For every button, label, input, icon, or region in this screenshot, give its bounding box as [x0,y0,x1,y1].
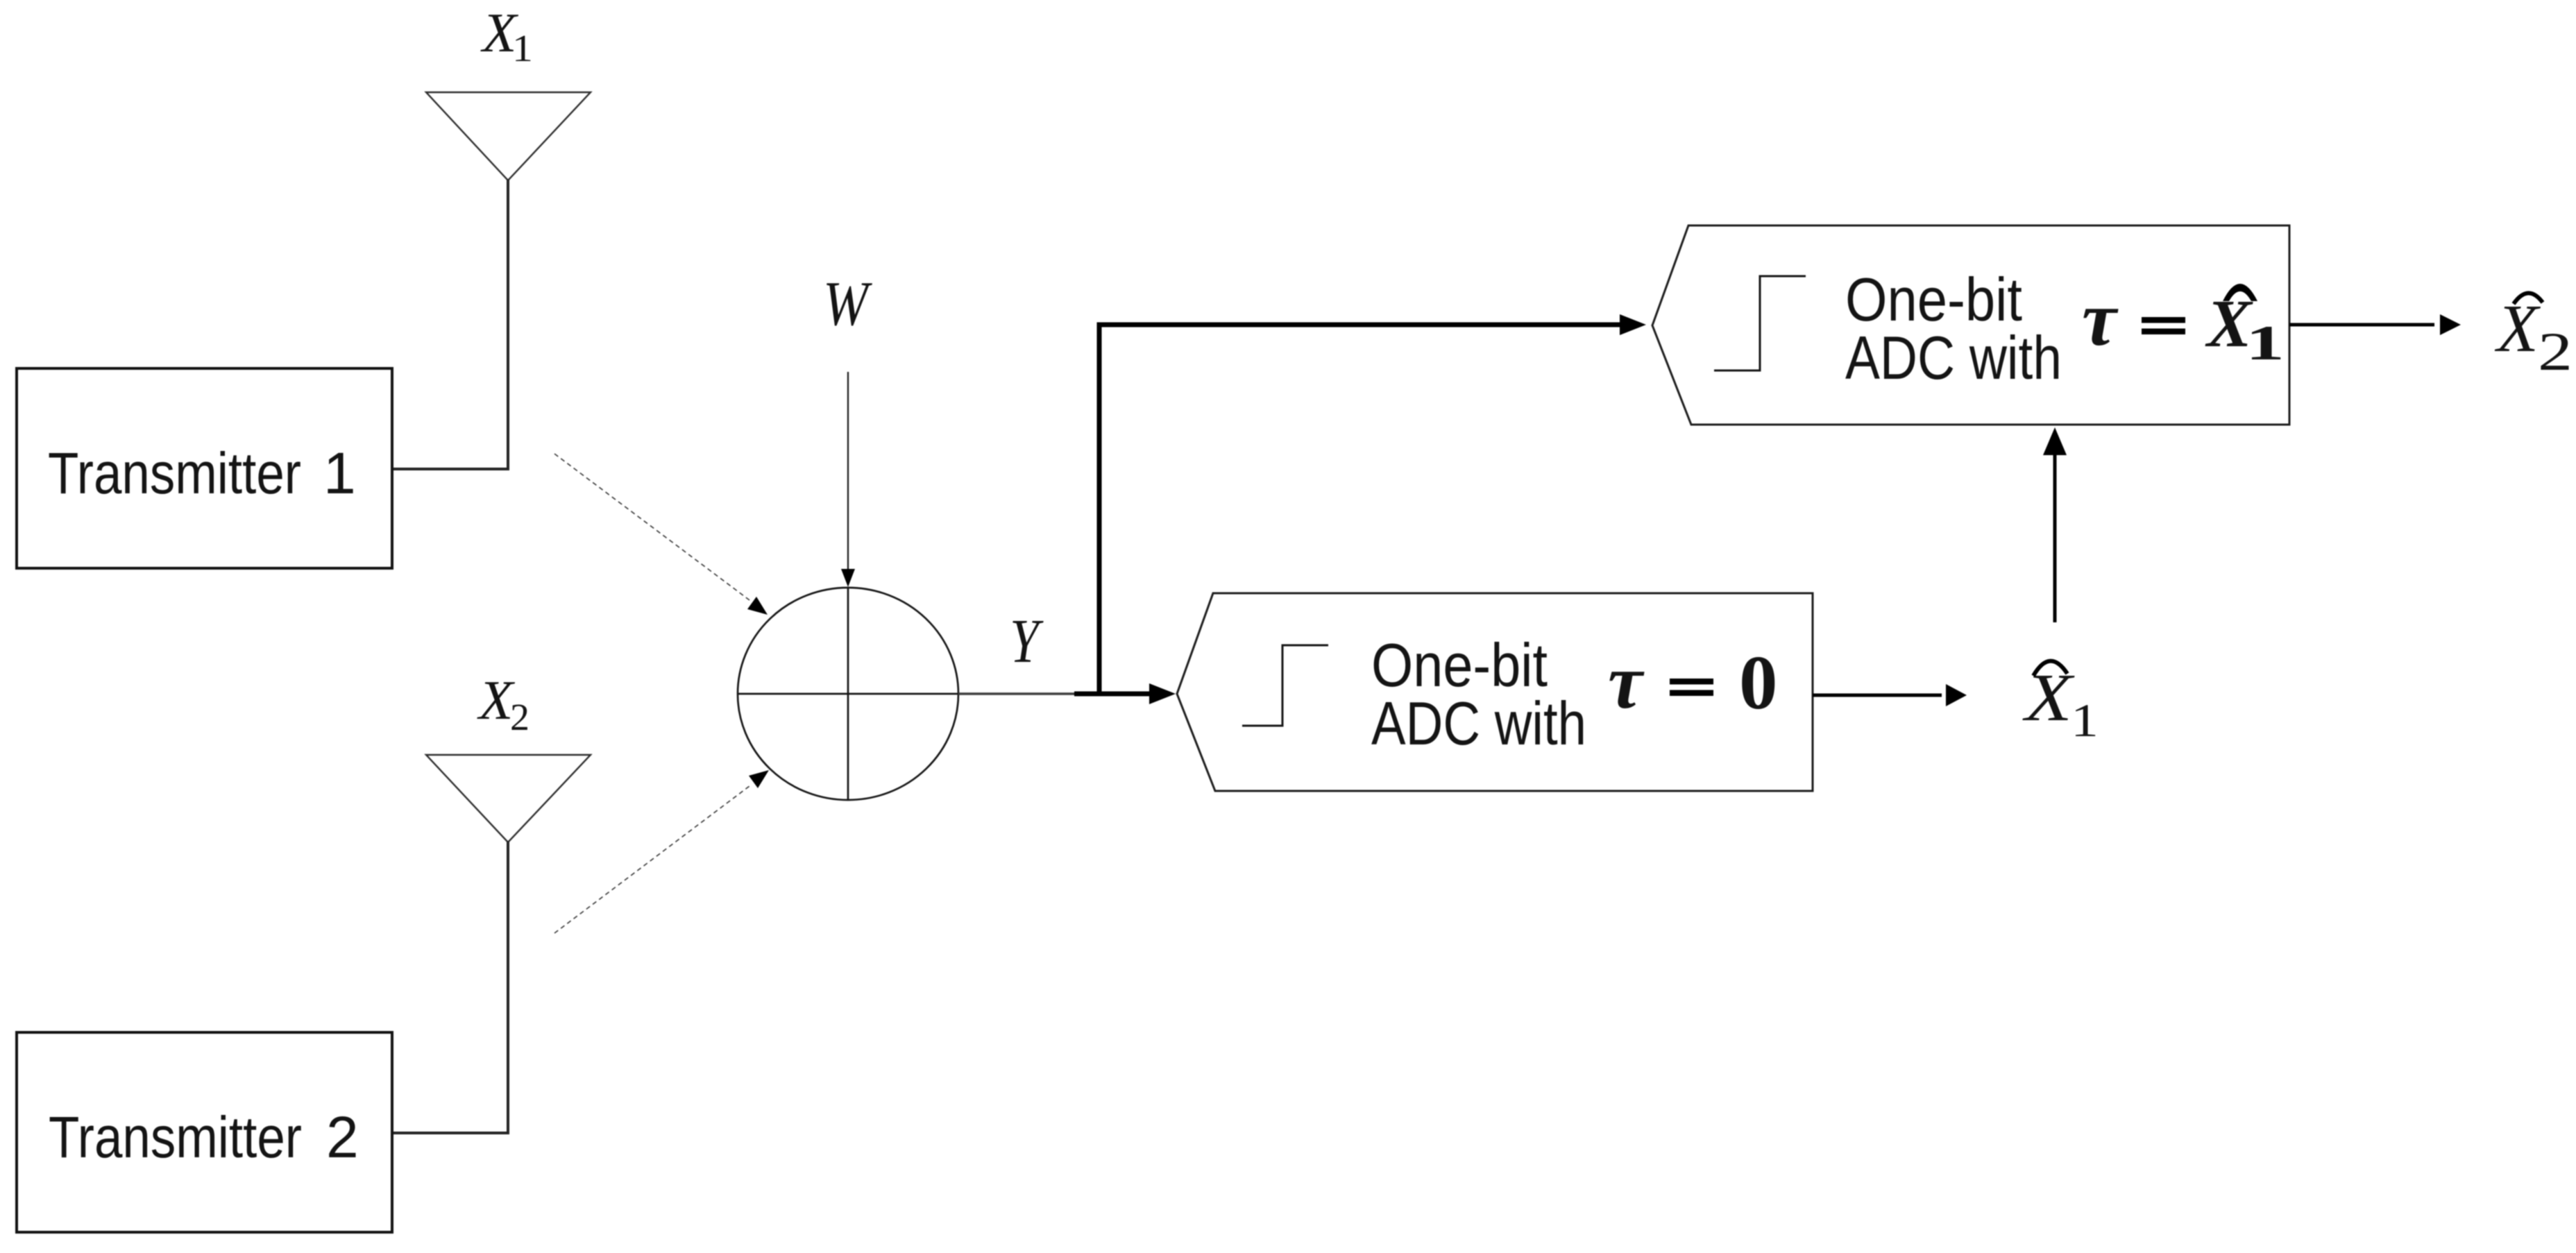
svg-text:2: 2 [510,696,529,738]
svg-text:2: 2 [2538,321,2573,382]
svg-text:X: X [2494,291,2541,366]
svg-text:1: 1 [2246,316,2285,370]
svg-text:W: W [823,268,872,339]
svg-text:1: 1 [323,441,356,506]
svg-text:1: 1 [512,27,533,69]
svg-text:τ: τ [1608,639,1645,725]
svg-text:ADC with: ADC with [1845,323,2062,392]
svg-text:1: 1 [2071,694,2099,747]
svg-text:Transmitter: Transmitter [48,441,301,506]
svg-text:ADC with: ADC with [1371,689,1586,758]
svg-text:Transmitter: Transmitter [49,1105,302,1170]
svg-text:2: 2 [326,1105,359,1170]
svg-text:τ: τ [2082,276,2119,362]
svg-text:0: 0 [1739,640,1778,726]
